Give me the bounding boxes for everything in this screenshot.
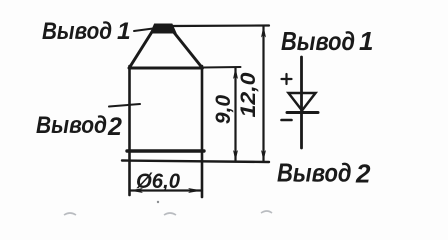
svg-text:Вывод: Вывод xyxy=(281,26,355,56)
svg-text:Вывод: Вывод xyxy=(36,112,107,139)
svg-text:1: 1 xyxy=(117,18,131,45)
svg-text:2: 2 xyxy=(355,159,371,189)
svg-text:9,0: 9,0 xyxy=(212,95,235,125)
svg-text:2: 2 xyxy=(107,113,122,141)
svg-text:Ø6,0: Ø6,0 xyxy=(136,170,180,193)
svg-text:Вывод: Вывод xyxy=(42,18,112,45)
svg-text:Вывод: Вывод xyxy=(277,158,352,188)
svg-text:12,0: 12,0 xyxy=(237,72,260,117)
svg-text:1: 1 xyxy=(359,26,373,56)
